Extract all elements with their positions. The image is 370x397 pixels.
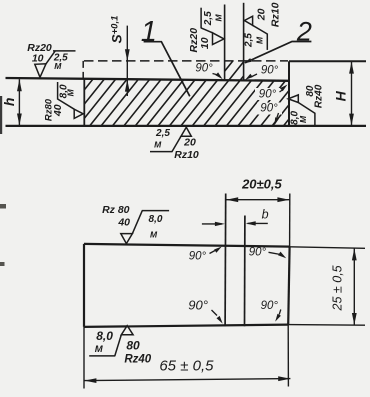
svg-text:М: М	[65, 88, 75, 96]
roughness value 10	[32, 53, 44, 65]
svg-text:М: М	[255, 36, 265, 44]
svg-text:2,5: 2,5	[155, 128, 170, 139]
h dimension label	[1, 98, 17, 107]
roughness value 40 plan	[117, 216, 130, 228]
angle arrow to rib right base	[245, 74, 257, 80]
leader line for position 1	[144, 42, 190, 97]
angle 90 at rib left base	[195, 63, 213, 75]
svg-text:М: М	[95, 344, 104, 355]
dimension label b	[262, 208, 269, 222]
allowance arrow upper	[125, 49, 130, 61]
svg-text:90°: 90°	[249, 246, 267, 258]
H dimension line	[351, 62, 353, 126]
svg-text:М: М	[298, 115, 308, 123]
roughness value 20 bottom	[183, 137, 196, 149]
angle arrow to top right corner	[280, 85, 288, 93]
angle 90 right edge top	[249, 246, 267, 258]
svg-text:h: h	[1, 98, 17, 107]
svg-text:40: 40	[52, 104, 64, 117]
left edge extension down	[83, 327, 85, 389]
h arrow up	[17, 79, 22, 91]
rib left wall + extension line	[224, 5, 226, 81]
svg-text:Rz40: Rz40	[313, 84, 324, 108]
roughness value Rz80	[43, 98, 54, 121]
roughness value Rz40 plan bottom	[124, 354, 151, 366]
arrow 25 down	[352, 313, 357, 325]
arrow 20 right	[277, 197, 289, 202]
bottom edge extension right	[288, 324, 365, 327]
arrow 65 right	[278, 376, 290, 381]
svg-text:2: 2	[296, 16, 312, 46]
svg-text:80: 80	[126, 338, 140, 352]
roughness value 80 right	[305, 85, 316, 97]
arrow 20 left	[226, 197, 238, 202]
flag value 2,5	[53, 52, 68, 63]
angle arrow right edge top	[269, 252, 287, 259]
svg-text:М: М	[213, 13, 223, 21]
slot right wall plan + extension	[244, 216, 246, 327]
top edge extension right	[290, 247, 365, 249]
svg-text:Rz10: Rz10	[174, 149, 199, 161]
roughness symbol bottom surface	[150, 127, 191, 151]
angle arrow slot bottom-left	[212, 310, 223, 324]
H arrow up	[349, 62, 354, 74]
bottom surface line of bar	[6, 125, 367, 127]
b arrow right	[246, 221, 268, 225]
flag letter M	[54, 61, 62, 71]
roughness value 10 rib	[199, 37, 211, 49]
svg-text:Rz10: Rz10	[269, 2, 281, 27]
dimension text 65±0,5	[159, 358, 214, 375]
leader 2 arrowhead	[244, 58, 252, 63]
angle 90 at part top right corner	[255, 88, 280, 100]
slot left wall plan + extension	[224, 194, 227, 327]
svg-text:М: М	[54, 61, 62, 71]
flag letter M plan bottom	[95, 344, 104, 355]
svg-text:Rz40: Rz40	[124, 354, 151, 366]
position label 1	[141, 16, 157, 48]
flag value 2,5 bottom	[155, 128, 170, 139]
svg-text:25 ± 0,5: 25 ± 0,5	[331, 265, 345, 311]
page margin artifact	[0, 96, 6, 266]
arrow 65 left	[84, 378, 96, 383]
dimension line 20	[226, 199, 290, 201]
svg-text:90°: 90°	[188, 298, 208, 313]
left end face of part	[83, 79, 85, 126]
svg-text:90°: 90°	[195, 63, 213, 75]
roughness symbol left face	[58, 82, 84, 118]
dimension text 25±0,5	[331, 265, 345, 311]
dimension line 65	[84, 379, 290, 381]
plan view top edge	[84, 244, 290, 247]
roughness symbol plan bottom edge	[89, 326, 133, 356]
h dimension line	[18, 79, 20, 125]
allowance dimension line S	[126, 26, 128, 96]
roughness value 80 plan bottom	[126, 338, 140, 352]
angle arrow to bottom edge	[274, 113, 279, 126]
dashed blank outline (left vertical)	[82, 61, 84, 78]
roughness symbol rib right wall	[244, 16, 267, 50]
b arrow left	[202, 222, 225, 226]
angle arrow right edge bottom	[275, 310, 281, 322]
roughness value Rz10 bottom	[174, 149, 199, 161]
angle 90 at part bottom right corner	[257, 103, 282, 115]
svg-text:S+0,1: S+0,1	[109, 16, 125, 44]
svg-text:8,0: 8,0	[96, 329, 113, 343]
rib right wall + extension line	[243, 3, 245, 81]
roughness symbol right face	[288, 95, 315, 126]
arrow 25 up	[352, 248, 357, 260]
leader line for position 2	[245, 42, 311, 63]
flag letter M left	[65, 88, 75, 96]
roughness value Rz 80 plan	[102, 204, 130, 216]
svg-text:10: 10	[32, 53, 44, 65]
blank top surface line (right portion)	[289, 60, 366, 62]
angle arrow slot top-left	[210, 247, 222, 254]
dimension text 20±0,5	[241, 177, 282, 192]
flag value 8,0 plan	[149, 214, 163, 225]
svg-text:b: b	[262, 208, 269, 222]
roughness value Rz10 rib	[269, 2, 281, 27]
roughness value Rz20	[27, 42, 52, 54]
svg-text:90°: 90°	[259, 88, 277, 100]
svg-text:8,0: 8,0	[149, 214, 163, 225]
H dimension label	[333, 90, 349, 101]
top surface line of part	[6, 78, 290, 81]
hatched cross-section of part 1	[40, 56, 351, 131]
roughness value Rz40 right	[313, 84, 324, 108]
angle 90 slot top-left	[189, 251, 207, 263]
plan view left edge	[83, 244, 85, 327]
plan view bottom edge	[84, 325, 288, 327]
svg-text:H: H	[333, 90, 349, 101]
dashed blank outline (horizontal)	[84, 60, 288, 62]
svg-text:Rz 80: Rz 80	[102, 204, 130, 216]
svg-text:20: 20	[183, 137, 196, 149]
angle 90 right edge bottom	[261, 300, 279, 312]
svg-text:90°: 90°	[189, 251, 207, 263]
angle arrow to rib left base	[213, 72, 223, 79]
svg-text:90°: 90°	[260, 103, 278, 115]
H arrow down	[349, 114, 354, 126]
flag letter M plan	[150, 230, 158, 240]
roughness value 20 rib	[255, 8, 267, 21]
flag letter M bottom	[154, 139, 162, 149]
svg-text:1: 1	[141, 16, 157, 48]
svg-text:40: 40	[117, 216, 130, 228]
roughness symbol top-left surface	[35, 51, 76, 77]
flag letter M rib-left	[213, 13, 223, 21]
plan view right edge	[288, 247, 289, 325]
svg-text:2,5: 2,5	[244, 33, 255, 48]
flag letter M rib-right	[255, 36, 265, 44]
svg-text:20±0,5: 20±0,5	[241, 177, 282, 192]
svg-text:М: М	[150, 230, 158, 240]
right edge extension down	[287, 325, 289, 387]
angle 90 at rib right base	[261, 64, 279, 76]
allowance value S+0,1	[109, 16, 125, 44]
right end face of part	[288, 61, 290, 126]
roughness symbol rib left wall	[201, 8, 224, 45]
svg-text:90°: 90°	[261, 64, 279, 76]
roughness value 40	[52, 104, 64, 117]
svg-text:М: М	[154, 139, 162, 149]
allowance arrow lower	[125, 80, 130, 92]
flag value 2,5 rib-left	[203, 11, 214, 26]
flag value 8,0 left	[59, 84, 70, 98]
h arrow down	[17, 114, 22, 126]
svg-text:20: 20	[255, 8, 267, 21]
svg-text:65 ± 0,5: 65 ± 0,5	[159, 358, 214, 375]
flag value 8,0 plan bottom	[96, 329, 113, 343]
flag letter M right	[298, 115, 308, 123]
flag value 2,5 rib-right	[244, 33, 255, 48]
flag value 8,0 right	[290, 111, 301, 125]
position label 2	[296, 16, 312, 46]
right edge extension up	[289, 194, 291, 247]
roughness symbol plan top edge	[121, 211, 169, 244]
angle 90 slot bottom-left	[188, 298, 208, 313]
svg-text:10: 10	[199, 37, 211, 49]
dimension line 25	[353, 248, 355, 325]
roughness value Rz20 rib	[188, 28, 200, 53]
svg-text:90°: 90°	[261, 300, 279, 312]
